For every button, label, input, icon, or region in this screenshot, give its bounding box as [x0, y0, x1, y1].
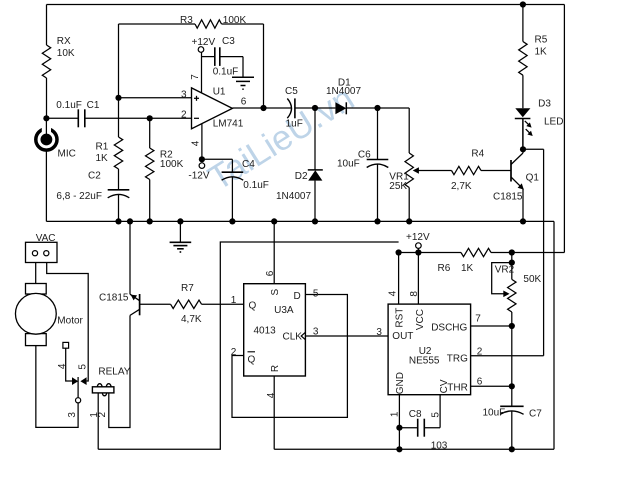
wire op-amp output	[232, 105, 291, 111]
wire +12V rail top border	[47, 5, 565, 253]
svg-text:103: 103	[431, 441, 448, 452]
svg-text:6: 6	[241, 97, 247, 108]
wire 555 pin 8 VCC	[409, 253, 420, 305]
svg-text:4013: 4013	[254, 326, 277, 337]
svg-text:4: 4	[266, 392, 277, 398]
svg-text:C4: C4	[242, 159, 255, 170]
node ground bus junctions	[115, 218, 526, 224]
svg-text:R5: R5	[535, 35, 548, 46]
svg-text:1K: 1K	[461, 263, 474, 274]
capacitor C4	[202, 159, 269, 221]
svg-text:R7: R7	[181, 283, 194, 294]
svg-text:3: 3	[67, 412, 78, 418]
node pin3 junction	[115, 95, 121, 101]
svg-text:Q: Q	[248, 355, 256, 366]
svg-text:2: 2	[477, 346, 483, 357]
wire 555 pin 5 CV	[430, 395, 441, 428]
resistor R2	[146, 118, 184, 221]
svg-text:C5: C5	[285, 86, 298, 97]
svg-text:1K: 1K	[535, 47, 548, 58]
svg-text:OUT: OUT	[392, 331, 413, 342]
svg-text:C1815: C1815	[99, 293, 129, 304]
svg-text:U1: U1	[213, 86, 226, 97]
ic U2 NE555	[388, 304, 471, 395]
svg-text:1K: 1K	[96, 153, 109, 164]
svg-text:LED: LED	[544, 117, 563, 128]
svg-text:0.1uF: 0.1uF	[56, 100, 82, 111]
resistor RX	[42, 36, 75, 78]
node Q1 collector junction	[520, 146, 526, 152]
svg-text:GND: GND	[395, 372, 406, 394]
relay contact common arm	[67, 377, 81, 418]
svg-text:D3: D3	[538, 98, 551, 109]
wire motor to contact common	[36, 346, 78, 428]
svg-text:7: 7	[475, 314, 481, 325]
svg-text:R6: R6	[438, 263, 451, 274]
svg-text:2: 2	[181, 110, 187, 121]
diode D1 1N4007	[315, 78, 378, 115]
resistor R6	[438, 248, 492, 273]
svg-text:D2: D2	[295, 171, 308, 182]
svg-text:100K: 100K	[160, 159, 184, 170]
terminal +12V op-amp supply	[192, 37, 216, 93]
resistor R1	[96, 137, 123, 169]
watermark	[202, 79, 361, 199]
svg-text:6: 6	[265, 270, 276, 276]
wire 4013 CLK to 555 OUT	[305, 326, 388, 338]
resistor R7	[140, 283, 244, 325]
wire relay pin 2 to transistor collector	[109, 315, 130, 427]
node C6 top junction	[374, 105, 380, 111]
svg-text:C8: C8	[409, 409, 422, 420]
svg-text:3: 3	[181, 90, 187, 101]
svg-text:D: D	[294, 291, 301, 302]
svg-text:R4: R4	[471, 148, 484, 159]
op-amp U1 LM741	[181, 74, 247, 147]
capacitor C1	[46, 100, 191, 127]
transistor Q1 C1815	[493, 119, 539, 222]
svg-text:10K: 10K	[57, 48, 75, 59]
svg-text:Q: Q	[249, 301, 257, 312]
svg-text:RX: RX	[57, 36, 71, 47]
svg-text:U3A: U3A	[274, 305, 294, 316]
svg-text:1: 1	[231, 295, 237, 306]
ground symbol main	[170, 221, 192, 252]
svg-text:0.1uF: 0.1uF	[243, 180, 269, 191]
node R2 top junction	[147, 115, 153, 121]
wire to VR1 top	[378, 108, 410, 153]
diode D2 1N4007	[276, 108, 323, 221]
wire R3 feedback left vertical	[118, 24, 120, 137]
wire DSCHG to THR node	[511, 326, 513, 386]
svg-text:10uF: 10uF	[483, 408, 506, 419]
wire 555 pin 7 DSCHG	[471, 314, 515, 330]
svg-text:1N4007: 1N4007	[276, 191, 311, 202]
label 4013 pin 1	[231, 295, 237, 306]
svg-text:2: 2	[97, 411, 108, 417]
svg-text:NE555: NE555	[409, 356, 440, 367]
wire +12V link bottom	[98, 242, 398, 449]
wire 555 pin 4 RST	[388, 253, 399, 305]
svg-text:6: 6	[477, 376, 483, 387]
potentiometer VR1 25K	[389, 153, 451, 221]
resistor R5	[519, 5, 548, 76]
svg-text:+12V: +12V	[192, 37, 216, 48]
svg-text:10uF: 10uF	[337, 159, 360, 170]
svg-text:2: 2	[231, 347, 237, 358]
svg-text:LM741: LM741	[213, 119, 244, 130]
svg-text:-12V: -12V	[188, 170, 209, 181]
wire VAC left pin to motor	[35, 263, 37, 284]
connector VAC	[26, 233, 58, 262]
microphone MIC	[36, 118, 76, 159]
svg-text:VR2: VR2	[495, 264, 515, 275]
svg-text:7: 7	[190, 74, 201, 80]
svg-text:C6: C6	[358, 150, 371, 161]
svg-text:4: 4	[191, 140, 202, 146]
wire R3 right vertical	[263, 24, 265, 108]
svg-text:100K: 100K	[223, 15, 247, 26]
terminal +12V bottom	[406, 232, 430, 253]
wire +12V bus	[396, 249, 565, 255]
svg-text:RELAY: RELAY	[98, 367, 130, 378]
svg-text:C1: C1	[87, 100, 100, 111]
ground symbol op-amp supply	[232, 57, 254, 90]
svg-text:4: 4	[57, 363, 68, 369]
svg-text:CLK: CLK	[283, 332, 303, 343]
wire contact 4 lead	[66, 348, 72, 381]
ic U3A 4013	[244, 284, 306, 376]
wire 4013 pin 6 S	[265, 221, 276, 283]
svg-text:R1: R1	[96, 142, 109, 153]
svg-text:5: 5	[313, 289, 319, 300]
svg-text:TRG: TRG	[447, 354, 468, 365]
svg-text:6,8 - 22uF: 6,8 - 22uF	[56, 191, 102, 202]
capacitor C2	[56, 169, 129, 221]
svg-text:4,7K: 4,7K	[181, 314, 202, 325]
potentiometer VR2 50K	[492, 249, 542, 326]
resistor R3	[119, 15, 264, 28]
svg-text:C3: C3	[222, 36, 235, 47]
svg-text:2,7K: 2,7K	[451, 181, 472, 192]
svg-text:C7: C7	[529, 409, 542, 420]
svg-text:Q1: Q1	[526, 173, 540, 184]
svg-text:+12V: +12V	[406, 232, 430, 243]
svg-text:25K: 25K	[389, 181, 407, 192]
wire relay pin 1 to +12V rail	[97, 393, 99, 449]
node R5 top junction	[520, 1, 526, 7]
capacitor C8	[399, 409, 447, 452]
svg-text:1: 1	[390, 411, 401, 417]
wire 4013 pin 4 R	[266, 376, 277, 449]
svg-text:S: S	[270, 289, 281, 296]
svg-text:0.1uF: 0.1uF	[213, 67, 239, 78]
svg-text:3: 3	[313, 326, 319, 337]
relay contact 5	[78, 364, 89, 385]
wire op-amp pin 3	[119, 90, 192, 101]
wire ground bus	[46, 221, 554, 449]
svg-text:MIC: MIC	[58, 149, 76, 160]
svg-text:R3: R3	[180, 15, 193, 26]
node mic input junction	[43, 115, 49, 121]
svg-text:DSCHG: DSCHG	[431, 323, 467, 334]
wire mic to ground bus	[45, 150, 47, 221]
svg-text:THR: THR	[447, 382, 468, 393]
svg-text:R: R	[270, 365, 281, 372]
svg-text:C2: C2	[88, 171, 101, 182]
capacitor C6	[337, 108, 388, 221]
node D2 top junction	[312, 105, 318, 111]
capacitor C5	[285, 86, 315, 130]
svg-text:1N4007: 1N4007	[326, 86, 361, 97]
wire 555 pin 6 THR	[471, 376, 515, 389]
capacitor C7	[483, 386, 543, 449]
svg-text:3: 3	[376, 327, 382, 338]
relay contact terminal square	[63, 342, 69, 348]
wire ground rail bottom	[274, 446, 554, 452]
svg-text:RST: RST	[395, 308, 406, 328]
svg-text:Motor: Motor	[57, 316, 83, 327]
led D3	[515, 75, 564, 149]
resistor R4	[451, 148, 511, 192]
relay coil RELAY	[89, 367, 131, 418]
transistor C1815 relay driver	[99, 221, 140, 315]
wire op-amp pin 4	[199, 124, 205, 163]
svg-text:1uF: 1uF	[286, 119, 303, 130]
label 555 pin 2 TRG	[477, 346, 483, 357]
wire RX to mic node	[46, 78, 48, 118]
svg-text:8: 8	[409, 291, 420, 297]
wire Q1 collector to TRG	[471, 149, 544, 355]
wire VAC right pin to contact 5	[47, 263, 88, 382]
svg-text:50K: 50K	[523, 274, 541, 285]
terminal -12V op-amp supply	[188, 163, 209, 182]
motor M	[15, 284, 83, 346]
relay contact 4	[57, 363, 78, 385]
svg-text:4: 4	[388, 290, 399, 296]
wire 4013 pin 5 D to Qbar loop	[231, 289, 348, 418]
svg-text:VCC: VCC	[415, 309, 426, 330]
wire 555 pin 1 GND	[390, 395, 403, 450]
svg-text:C1815: C1815	[493, 192, 523, 203]
svg-text:5: 5	[430, 412, 441, 418]
capacitor C3	[202, 36, 244, 78]
svg-text:5: 5	[78, 364, 89, 370]
